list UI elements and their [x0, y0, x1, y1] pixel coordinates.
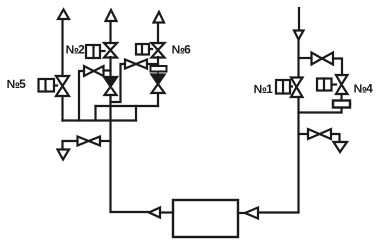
wire bottom bus to tank left [111, 211, 150, 213]
valve No6 [152, 43, 165, 58]
wire H3 to No4 valve [333, 59, 342, 76]
control valve below No2 filled half [104, 77, 117, 87]
control valve below No2 open half [105, 87, 117, 96]
wire H2 right stub [147, 63, 158, 65]
arrow up left No5 line [58, 10, 69, 20]
wire main No2 long [109, 95, 111, 212]
wire riser x95 [94, 106, 96, 121]
wire right drain stub [299, 133, 309, 135]
wire arrow to tank left [160, 211, 173, 213]
actuator box No5 [39, 79, 58, 92]
valve right drain [308, 129, 331, 139]
arrow up No6 line [154, 12, 165, 23]
wire No4 flange drop [340, 108, 342, 113]
arrow down left drain [58, 150, 70, 160]
wire bottom bus left [63, 119, 137, 121]
wire left drain stub [100, 140, 111, 142]
svg-text:№4: №4 [354, 82, 374, 96]
wire H1 right stub [104, 69, 111, 71]
wire right supply top [298, 8, 300, 31]
arrow down right drain [334, 142, 348, 152]
svg-text:№5: №5 [7, 77, 27, 91]
wire mid bus [96, 105, 159, 107]
wire riser No5 top [61, 19, 63, 76]
wire right riser long [297, 97, 299, 212]
arrow left into tank right [245, 208, 258, 219]
wire right drain corner [331, 134, 340, 142]
actuator box No6 [136, 44, 152, 55]
flange No4 [333, 101, 350, 108]
svg-text:№6: №6 [172, 43, 192, 57]
arrow left into tank left [149, 208, 160, 218]
wire No4 valve to flange [340, 94, 342, 101]
wire arrow to tank right [238, 212, 245, 214]
actuator box No2 [86, 45, 105, 58]
wire No6 valve to flange [157, 57, 159, 66]
valve No1 [291, 78, 303, 98]
wire main No2 middle [109, 57, 111, 77]
valve No5 [56, 76, 69, 96]
valve No4 [336, 75, 348, 94]
svg-text:№2: №2 [66, 43, 86, 57]
valve H1 horizontal [84, 66, 104, 76]
wire right supply mid [297, 40, 299, 78]
arrow down supply [294, 31, 304, 40]
wire left drain corner [63, 141, 78, 150]
wire No4 return [299, 111, 342, 113]
valve left drain [78, 137, 101, 146]
wire riser No6 to bus [157, 93, 159, 106]
wire No6 flange to valve [157, 73, 159, 75]
actuator box No4 [317, 79, 336, 91]
control valve below No6 filled half [152, 75, 165, 85]
wire main No2 top [109, 21, 111, 43]
valve H2 horizontal [125, 60, 147, 69]
flange No6 [151, 66, 167, 72]
valve No2 [104, 43, 117, 58]
valve H3 horizontal [312, 53, 334, 65]
control valve below No6 open half [152, 84, 165, 93]
wire right bus to arrow [258, 211, 299, 213]
wire riser No6 top [157, 23, 159, 44]
wire H1 drop [79, 71, 84, 121]
wire H2 drop hook [111, 64, 126, 102]
arrow up No2 line [106, 10, 117, 21]
wire branch to H3 [299, 57, 312, 59]
tank [173, 200, 238, 237]
actuator box No1 [276, 80, 292, 94]
wire riser No5 bottom [61, 96, 63, 121]
wire riser x136 [135, 106, 137, 121]
svg-text:№1: №1 [254, 82, 274, 96]
